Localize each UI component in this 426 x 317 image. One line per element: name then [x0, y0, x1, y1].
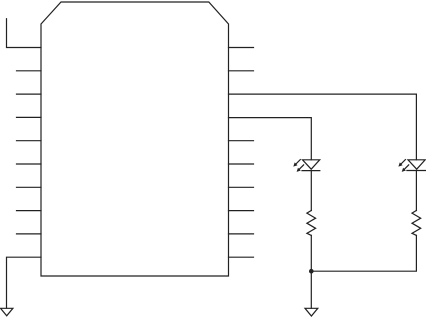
pin 9 left: [17, 233, 42, 235]
junction node: [309, 269, 314, 274]
pin 3 left: [17, 93, 42, 95]
pin 6 right: [229, 163, 254, 165]
resistor R1: [307, 211, 316, 236]
wire net A: pin 3 right to LED D2: [229, 94, 417, 160]
pin 1 left wire (open stub up): [7, 19, 42, 48]
pin 6 left: [17, 163, 42, 165]
pin 1 right: [229, 47, 254, 49]
pin 8 right: [229, 210, 254, 212]
ground (left): [1, 308, 13, 316]
LED D2: [398, 160, 425, 172]
wire node to ground: [310, 271, 312, 308]
wire R1 to node: [310, 235, 312, 271]
pin 5 left: [17, 140, 42, 142]
pin 2 left: [17, 70, 42, 72]
pin 4 left: [17, 116, 42, 118]
wire D1 cathode to R1: [310, 171, 312, 211]
pin 9 right: [229, 233, 254, 235]
pin 7 left: [17, 186, 42, 188]
ground (bottom): [305, 308, 318, 316]
pin 5 right: [229, 140, 254, 142]
wire D2 cathode to R2: [415, 171, 417, 211]
pin 10 right: [229, 256, 254, 258]
wire R2 down and left to node: [311, 235, 416, 271]
pin 2 right: [229, 70, 254, 72]
pin 8 left: [17, 210, 42, 212]
IC U1 body: [41, 2, 229, 276]
pin 7 right: [229, 186, 254, 188]
LED D1: [293, 160, 320, 172]
wire net B: pin 4 right to LED D1: [229, 118, 312, 160]
pin 10 left wire to ground: [7, 257, 42, 308]
resistor R2: [412, 211, 421, 236]
